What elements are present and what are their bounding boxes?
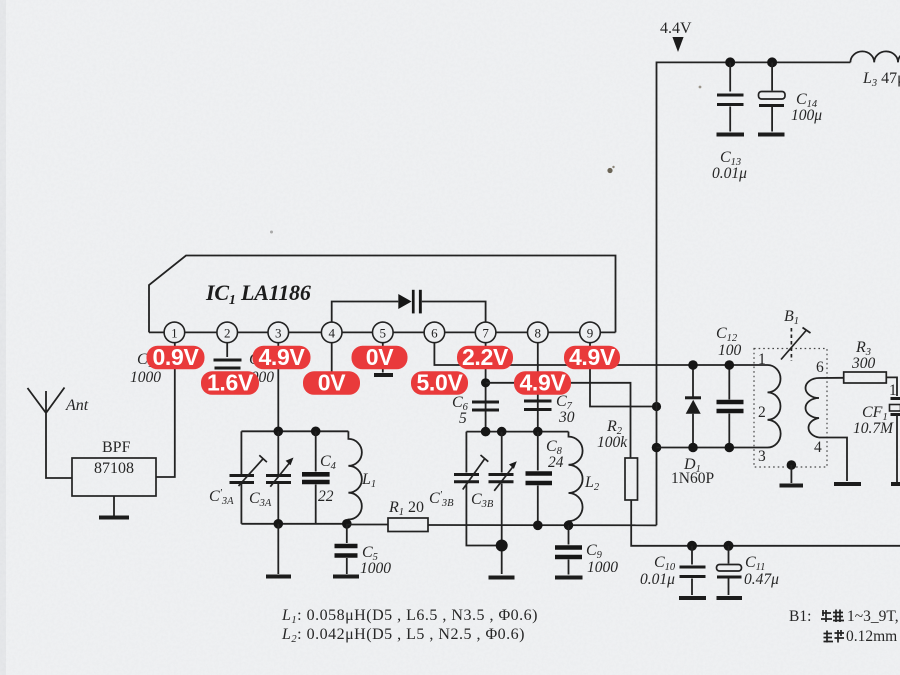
voltage label pin9 4.9V [564,344,620,370]
varactor diode inside IC between pin4 and pin7 [332,290,486,322]
svg-text:4: 4 [328,326,335,341]
svg-text:4.9V: 4.9V [519,370,566,396]
voltage label pin1 0.9V [147,344,205,370]
voltage label pin3 4.9V [253,344,311,370]
node C10 [687,541,697,551]
node C4 top [311,427,321,437]
supply rail [657,62,851,525]
capacitor C8 value 24 [526,432,564,526]
svg-text:0.47μ: 0.47μ [744,571,779,588]
op-amp IC1 LA1186 body outline [149,256,616,333]
pin 1 [164,322,185,343]
resistor R1 value 20 [347,499,428,532]
svg-text:L1: 0.058μH(D5 , L6.5 , N3.5: L1: 0.058μH(D5 , L6.5 , N3.5 , Φ0.6) [281,607,538,626]
transformer B1 dotted box [754,349,827,468]
C'3B label [429,490,454,509]
B1 adjustable core arrow [781,328,811,362]
scan speck artifacts [270,86,701,234]
svg-text:4.9V: 4.9V [258,344,305,370]
capacitor C1 (hidden behind 0.9V label) value 1000 [130,351,161,386]
wire pin7 down through C6 to tank2 [485,343,487,432]
svg-text:1000: 1000 [360,560,391,577]
voltage label pin7 2.2V [457,344,513,370]
svg-text:4.4V: 4.4V [660,20,692,37]
tank1 top rail [241,430,348,432]
svg-text:0V: 0V [318,370,346,396]
electrolytic capacitor C14 value 100u [758,62,822,134]
svg-text:8: 8 [535,326,542,341]
C'3A label [209,488,234,507]
svg-text:10.7M: 10.7M [853,420,894,437]
svg-text:0.9V: 0.9V [152,344,199,370]
wire pin6 to transformer B1 primary top, node line [434,343,767,365]
svg-text:6: 6 [431,326,438,341]
voltage label pin6 5.0V [411,370,468,396]
svg-text:5: 5 [380,326,387,341]
wire pin8 down through C7 to tank2 [537,343,539,432]
svg-text:100μ: 100μ [791,107,822,124]
B1 primary winding [768,365,781,448]
wire pin3 down to tank 1 [277,343,279,432]
C3A label [249,490,272,509]
svg-text:1000: 1000 [130,369,161,386]
svg-text:0.01μ: 0.01μ [712,165,747,182]
pin 3 [268,322,289,343]
capacitor C9 value 1000 [555,525,618,577]
wire R2 bottom to AGC line [631,500,900,546]
node C11 [724,541,734,551]
pin 7 [475,322,496,343]
capacitor C2 under pin 2 [214,343,275,386]
svg-text:2: 2 [758,404,766,421]
ground tank2 trimmers [489,576,515,580]
svg-text:B1:: B1: [789,608,811,625]
svg-text:100: 100 [718,342,742,359]
inductor L3 value 47u [850,51,900,89]
variable capacitor C3B [489,432,517,574]
pin 8 [528,322,549,343]
svg-text:2: 2 [224,326,231,341]
C6 label value 5 [452,394,469,427]
voltage label pin4 0V [303,370,360,396]
B1 label [784,308,799,327]
pin 6 [424,322,445,343]
svg-text:7: 7 [482,326,489,341]
svg-text:5: 5 [459,410,467,427]
svg-text:L2: 0.042μH(D5 , L5 , N2.5 ,: L2: 0.042μH(D5 , L5 , N2.5 , Φ0.6) [281,626,525,645]
B1 terminal 6 [816,359,824,376]
ground below BPF [99,496,129,518]
B1 terminal 2 [758,404,766,421]
svg-text:BPF: BPF [102,439,131,456]
supply arrow [672,37,683,52]
B1 secondary winding [806,378,820,438]
svg-text:1000: 1000 [587,559,618,576]
wire R1 to tank2 bottom and supply rail [428,524,657,526]
svg-text:100k: 100k [597,434,628,451]
C3B label [471,491,494,510]
ground at pin 5 [374,343,393,375]
svg-text:1: 1 [758,351,766,368]
svg-text:300: 300 [851,355,876,372]
IC1 LA1186 label [205,280,311,308]
capacitor C5 value 1000 [333,524,391,577]
ground tank1 [266,524,291,577]
voltage label pin5 0V [352,344,408,370]
trimmer capacitor C'3A [230,431,267,524]
tank2 top rail [466,427,568,437]
ceramic filter CF1 10.7M [853,377,900,484]
node pin3/tank1 [274,427,284,437]
tank1 bottom rail [241,519,351,529]
voltage label pin8 4.9V [514,370,571,396]
pin 9 [580,322,601,343]
B1 terminal 4 [814,439,822,456]
svg-text:1.6V: 1.6V [207,370,254,396]
B1 terminal 3 [758,448,766,465]
pin 5 [373,322,394,343]
trimmer capacitor C'3B [454,432,502,546]
C7 label value 30 [556,393,575,426]
svg-text:6: 6 [816,359,824,376]
svg-text:24: 24 [548,454,564,471]
svg-text:0V: 0V [366,344,394,370]
variable capacitor C3A [266,431,294,524]
node C13 top [725,57,735,67]
4.4V supply label [660,20,692,37]
resistor R2 value 100k [597,418,638,500]
inductor L2 [569,432,600,526]
antenna [28,388,73,479]
svg-text:IC1 LA1186: IC1 LA1186 [205,280,311,308]
B1 wire gauge note (Chinese) [824,628,898,645]
svg-text:Ant: Ant [65,397,89,414]
tank2 bottom nodes [533,521,573,531]
L1 spec note [281,607,538,626]
svg-text:3: 3 [275,326,282,341]
svg-text:9: 9 [587,326,594,341]
svg-text:R1 20: R1 20 [388,499,424,518]
pin 2 [217,322,238,343]
svg-text:4.9V: 4.9V [569,344,616,370]
capacitor C13 value 0.01u [712,62,747,182]
svg-text:30: 30 [558,409,575,426]
capacitor C12 value 100 [716,325,744,452]
inductor L1 [348,431,376,524]
svg-text:5.0V: 5.0V [416,370,463,396]
resistor R3 value 300 [844,339,887,383]
Ant label [65,397,89,414]
diode D1 1N60P [671,360,714,487]
node C3B bottom junction [496,540,508,552]
L2 spec note [281,626,525,645]
capacitor C4 value 22 [302,431,337,524]
B1 winding note (Chinese) [789,608,899,625]
B1 core ground [780,460,804,485]
svg-text:0.12mm: 0.12mm [846,628,897,645]
svg-text:0.01μ: 0.01μ [640,571,675,588]
svg-text:1: 1 [889,382,897,399]
svg-text:22: 22 [318,488,334,505]
node pin7/R2 branch [481,378,631,458]
svg-text:87108: 87108 [94,460,134,477]
BPF block 87108 [72,439,156,496]
wire pin9 to supply rail [590,343,661,411]
capacitor C10 value 0.01u [640,546,706,598]
wire B1 secondary bottom to ground [819,438,861,485]
node rail / D1-C12 bottom line [652,443,768,453]
electrolytic capacitor C11 value 0.47u [717,546,780,598]
capacitor C6 plates [472,402,499,410]
svg-text:2.2V: 2.2V [462,344,509,370]
pin 4 [321,322,342,343]
wire B1 secondary top to R3 [819,377,844,379]
svg-text:1: 1 [171,326,178,341]
wire pin1 to BPF [156,343,175,477]
capacitor C7 plates [524,401,552,410]
svg-text:1~3_9T,: 1~3_9T, [847,608,899,625]
wire stub pin 4 [331,343,333,372]
svg-text:L3 47μ: L3 47μ [862,70,900,89]
B1 terminal 1 [758,351,766,368]
svg-text:4: 4 [814,439,822,456]
voltage label pin2 1.6V [201,370,259,396]
svg-text:1N60P: 1N60P [671,470,714,487]
svg-text:3: 3 [758,448,766,465]
node C14 top [767,57,777,67]
